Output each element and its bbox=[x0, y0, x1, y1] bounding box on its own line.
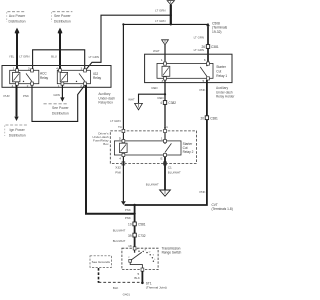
svg-text:1: 1 bbox=[13, 66, 15, 70]
svg-text:PNK: PNK bbox=[23, 94, 29, 98]
svg-text:Distribution: Distribution bbox=[52, 111, 69, 115]
svg-text:Relay 1: Relay 1 bbox=[216, 74, 227, 78]
pin 4 of relay 2 bbox=[122, 153, 125, 156]
svg-text:1: 1 bbox=[161, 58, 163, 62]
terminal pin T4 on box edge bbox=[122, 129, 125, 132]
box Auxiliary Under-dash Relay Box bbox=[2, 66, 111, 88]
label Transmission Range Switch bbox=[162, 246, 182, 254]
svg-text:2: 2 bbox=[27, 84, 29, 88]
pin 2 of ACC relay bbox=[31, 82, 34, 85]
svg-text:4: 4 bbox=[119, 157, 121, 161]
svg-text:6: 6 bbox=[204, 58, 206, 62]
svg-text:LT GRN: LT GRN bbox=[155, 9, 165, 13]
svg-text:X32: X32 bbox=[115, 165, 121, 169]
wire inside box to relay 2 pin 1 bbox=[164, 133, 166, 140]
wire BLK from switch down bbox=[141, 271, 143, 283]
svg-text:4: 4 bbox=[12, 84, 14, 88]
svg-text:Distribution: Distribution bbox=[54, 20, 71, 24]
svg-text:RED: RED bbox=[157, 96, 163, 100]
pin D of relay 2 bbox=[122, 140, 125, 143]
terminal pin A1 on box edge bbox=[164, 129, 167, 132]
svg-text:BLU/WHT: BLU/WHT bbox=[113, 239, 126, 243]
pin 3 of ACC relay bbox=[31, 69, 34, 72]
pin 1 of IG2 relay bbox=[61, 82, 64, 85]
box Transmission Range Switch (dashed) bbox=[122, 248, 158, 269]
connector C508 corner arrow bbox=[206, 23, 210, 26]
wire WHT to Starter Cut Relay 1 pin 1 bbox=[164, 45, 166, 62]
svg-text:C1: C1 bbox=[168, 165, 172, 169]
wire PNK from ACC relay pin 2 to IG2 relay pin 2 bbox=[32, 85, 85, 121]
svg-text:LT GRN: LT GRN bbox=[194, 35, 204, 39]
arrow to Ign Power Distribution (points down) bbox=[14, 117, 18, 121]
terminal pin 18 on switch edge bbox=[133, 247, 136, 250]
svg-text:G401: G401 bbox=[123, 293, 131, 297]
wire from triangle connector loop to IG2 pin 3 bbox=[86, 15, 171, 70]
svg-text:39: 39 bbox=[128, 234, 132, 238]
svg-text:1: 1 bbox=[161, 137, 163, 141]
label Auxiliary Under-dash Relay Box bbox=[98, 92, 115, 104]
svg-text:C381: C381 bbox=[210, 116, 218, 120]
svg-text:19-32): 19-32) bbox=[212, 30, 222, 34]
wire PNK down to transmission range switch bbox=[134, 205, 136, 248]
svg-text:LT GRN: LT GRN bbox=[89, 55, 99, 59]
label CVT (Terminals 1-8) bbox=[212, 203, 233, 211]
relay K2 Starter Cut Relay 2 (inner box) bbox=[114, 141, 181, 155]
svg-text:PNK: PNK bbox=[115, 171, 121, 175]
node Acc Power Distribution reference label bbox=[7, 12, 26, 24]
label Starter Cut Relay 1 bbox=[216, 65, 227, 78]
svg-text:LT GRN: LT GRN bbox=[194, 48, 204, 52]
svg-text:2: 2 bbox=[80, 84, 82, 88]
relay K1 Starter Cut Relay 1 (inner box) bbox=[157, 63, 213, 78]
switch contacts and arm bbox=[128, 249, 156, 268]
wire PNK heavy from IG2 relay pin 2 down and across bbox=[86, 85, 135, 214]
svg-text:See Grounds: See Grounds bbox=[92, 260, 111, 264]
terminal pin C1 on box edge bbox=[164, 162, 167, 165]
svg-text:C581: C581 bbox=[138, 223, 146, 227]
switch arm of ACC relay bbox=[23, 73, 32, 82]
dashed ground reference link wire bbox=[98, 268, 140, 283]
connector triangle BLU/WHT (to another circuit) bbox=[160, 190, 171, 196]
pin 1 of relay 2 bbox=[164, 140, 167, 143]
junction dot on RED wire bbox=[164, 93, 166, 95]
label Starter Cut Relay 2 bbox=[183, 142, 194, 154]
svg-text:Distribution: Distribution bbox=[9, 133, 26, 137]
svg-text:YEL: YEL bbox=[9, 54, 15, 58]
pin 5 of relay 1 bbox=[207, 77, 210, 80]
svg-text:3: 3 bbox=[161, 79, 163, 83]
svg-text:Relay Holder: Relay Holder bbox=[216, 94, 235, 98]
pin E of relay 2 bbox=[164, 153, 167, 156]
wire horizontal to C508 bbox=[123, 23, 208, 25]
connector pin 4 C382 bbox=[160, 101, 176, 106]
wire inside box to relay 2 pin D bbox=[122, 133, 124, 140]
svg-text:See Power: See Power bbox=[52, 106, 69, 110]
svg-text:LT GRN: LT GRN bbox=[110, 119, 120, 123]
coil of relay 2 bbox=[120, 143, 128, 152]
svg-text:20: 20 bbox=[200, 116, 204, 120]
wire PNK from relay 1 pin 5 down to CVT bbox=[125, 80, 207, 205]
arrow from See Power Distribution (points up) bbox=[58, 28, 62, 32]
wire branch to connector triangle bbox=[139, 94, 166, 103]
wire stub from triangle down to junction bbox=[170, 5, 172, 25]
connector triangle WHT branch (to another circuit) bbox=[135, 103, 143, 109]
svg-text:E: E bbox=[161, 157, 163, 161]
junction dot on horizontal wire at switch feed bbox=[133, 204, 135, 206]
svg-text:BLU/WHT: BLU/WHT bbox=[113, 228, 126, 232]
svg-text:PNK: PNK bbox=[125, 216, 131, 220]
connector pin 26 C381 bbox=[201, 45, 218, 50]
relay IG2 Relay (inner box) bbox=[57, 70, 90, 83]
label ACC Relay bbox=[40, 72, 49, 80]
box Auxiliary Under-dash Relay Holder (outer) bbox=[145, 54, 232, 82]
svg-text:WHT: WHT bbox=[128, 97, 135, 101]
svg-text:RED: RED bbox=[151, 86, 157, 90]
svg-text:Acc Power: Acc Power bbox=[9, 14, 26, 18]
svg-text:1: 1 bbox=[58, 84, 60, 88]
svg-text:T4: T4 bbox=[118, 125, 122, 129]
svg-text:A1: A1 bbox=[164, 125, 168, 129]
svg-text:Starter: Starter bbox=[216, 65, 227, 69]
coil of ACC relay bbox=[13, 72, 20, 81]
svg-text:Box: Box bbox=[103, 142, 109, 146]
svg-text:PNK: PNK bbox=[199, 190, 205, 194]
label C508 (Terminals 19-32) bbox=[212, 21, 228, 34]
svg-text:C381: C381 bbox=[211, 45, 219, 49]
junction dot left end of C508 wire bbox=[122, 23, 124, 25]
svg-text:3: 3 bbox=[80, 66, 82, 70]
junction dot at heavy wire tee bbox=[133, 213, 135, 215]
svg-text:Relay: Relay bbox=[40, 76, 49, 80]
svg-text:PNK: PNK bbox=[125, 208, 131, 212]
svg-text:18: 18 bbox=[128, 244, 132, 248]
arrow to See Power Distribution (points down) bbox=[60, 97, 64, 101]
wire GRN from IG2 relay pin 1 down bbox=[61, 85, 63, 97]
node See Grounds reference label (dashed box) bbox=[90, 256, 112, 268]
label Auxiliary Under-dash Relay Holder bbox=[216, 86, 235, 98]
svg-text:4: 4 bbox=[160, 101, 162, 105]
connector triangle WHT (from another circuit) bbox=[162, 40, 169, 45]
coil of relay 1 bbox=[162, 66, 170, 76]
svg-text:PUR: PUR bbox=[4, 94, 10, 98]
wire RED from relay 1 pin 3 down bbox=[164, 80, 166, 131]
node See Power Distribution reference label (top) bbox=[52, 12, 73, 24]
svg-text:10: 10 bbox=[128, 223, 132, 227]
pin 1 of ACC relay bbox=[16, 69, 19, 72]
pin 4 of ACC relay bbox=[16, 82, 19, 85]
pin 6 of relay 1 bbox=[207, 62, 210, 65]
relay ACC Relay (inner box) bbox=[10, 70, 39, 83]
terminal pin X32 on box edge bbox=[122, 162, 125, 165]
svg-text:5: 5 bbox=[202, 79, 204, 83]
coil of IG2 relay bbox=[60, 72, 67, 81]
pin 3 of IG2 relay bbox=[84, 69, 87, 72]
wire BLU/WHT from relay 2 pin E down bbox=[164, 157, 166, 190]
wire PUR from ACC relay pin 4 down bbox=[16, 85, 18, 116]
svg-text:See Power: See Power bbox=[54, 14, 71, 18]
svg-text:Relay: Relay bbox=[93, 76, 102, 80]
svg-text:BLU/WHT: BLU/WHT bbox=[146, 183, 159, 187]
wire YEL feed to ACC relay pin 1 bbox=[16, 33, 18, 70]
svg-text:LT GRN: LT GRN bbox=[19, 54, 29, 58]
svg-text:(Terminals 1-8): (Terminals 1-8) bbox=[212, 207, 233, 211]
wire LT GRN from junction down to fuse box terminal T4 bbox=[122, 24, 124, 131]
junction dot ST1 bbox=[141, 282, 144, 285]
svg-text:BLK: BLK bbox=[113, 286, 119, 290]
terminal pin 5 on switch edge bbox=[141, 268, 144, 271]
wire LT GRN from ACC relay pin 3 up and across bbox=[33, 50, 85, 70]
wire PNK from relay 2 pin 4 down bbox=[122, 157, 124, 202]
box Driver's Under-dash Fuse/Relay Box (dashed) bbox=[110, 131, 196, 164]
svg-text:Ign Power: Ign Power bbox=[10, 128, 26, 132]
svg-text:PNK: PNK bbox=[199, 88, 205, 92]
svg-text:Relay Box: Relay Box bbox=[98, 100, 113, 104]
svg-text:BLU/WHT: BLU/WHT bbox=[168, 171, 181, 175]
connector triangle (to another circuit, top) bbox=[167, 1, 174, 5]
svg-text:Cut: Cut bbox=[216, 70, 221, 74]
svg-text:C732: C732 bbox=[138, 234, 146, 238]
switch arm of relay 1 bbox=[200, 65, 207, 77]
svg-text:C382: C382 bbox=[168, 101, 176, 105]
pin 1 of relay 1 bbox=[164, 62, 167, 65]
svg-text:Distribution: Distribution bbox=[9, 20, 26, 24]
arrow from Acc Power Distribution (points up) bbox=[15, 28, 19, 32]
svg-text:LT GRN: LT GRN bbox=[155, 19, 165, 23]
svg-text:4: 4 bbox=[56, 66, 58, 70]
connector pin 20 C381 bbox=[200, 116, 218, 121]
terminal arrow at end of PNK wire bbox=[121, 201, 126, 205]
wire BLU feed to IG2 relay pin 4 bbox=[59, 33, 61, 70]
label IG2 Relay bbox=[93, 72, 102, 80]
wire LT GRN from C508 down to Starter Cut Relay 1 pin 6 bbox=[207, 26, 209, 62]
svg-text:WHT: WHT bbox=[153, 49, 160, 53]
svg-text:3: 3 bbox=[28, 66, 30, 70]
junction dot at lower tee bbox=[170, 23, 172, 25]
connector pin 10 C581 bbox=[128, 222, 146, 227]
pin 3 of relay 1 bbox=[164, 77, 167, 80]
pin 4 of IG2 relay bbox=[59, 69, 62, 72]
pin 2 of IG2 relay bbox=[84, 82, 87, 85]
switch arm of IG2 relay bbox=[76, 73, 85, 82]
svg-text:(Thermal Joint): (Thermal Joint) bbox=[146, 285, 167, 289]
switch arm of relay 2 bbox=[164, 143, 171, 153]
svg-text:GRN: GRN bbox=[53, 93, 59, 97]
label ST1 (Thermal Joint) bbox=[146, 281, 167, 289]
junction dot at LT GRN tee bbox=[170, 14, 172, 16]
connector pin 39 C732 bbox=[128, 233, 146, 238]
svg-text:BLU: BLU bbox=[51, 55, 57, 59]
svg-text:Relay 2: Relay 2 bbox=[183, 150, 194, 154]
svg-text:BLK: BLK bbox=[134, 276, 140, 280]
svg-text:Range Switch: Range Switch bbox=[162, 251, 182, 255]
node See Power Distribution reference label (middle) bbox=[44, 104, 70, 116]
node Ign Power Distribution reference label bbox=[5, 125, 28, 137]
label Driver's Under-dash Fuse/Relay Box bbox=[92, 132, 109, 146]
